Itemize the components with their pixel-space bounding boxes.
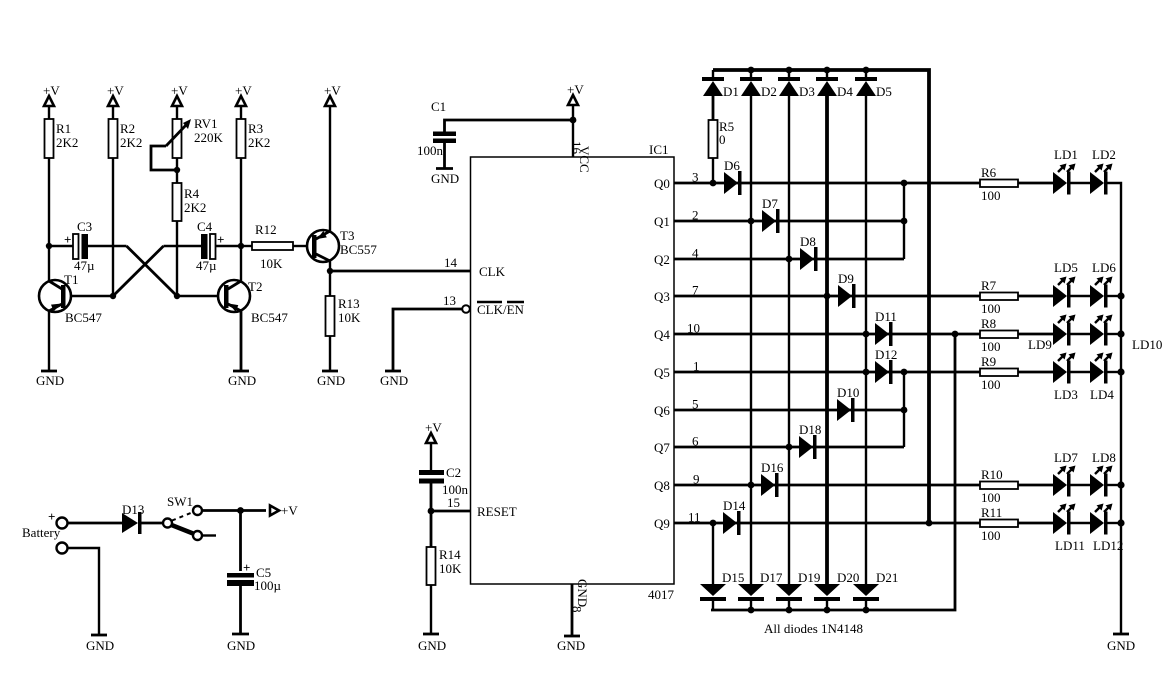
svg-text:100: 100 [981, 339, 1001, 354]
node rail row 523 [1117, 519, 1124, 526]
diode D13 [122, 502, 144, 534]
svg-text:C3: C3 [77, 219, 92, 234]
svg-text:4017: 4017 [648, 587, 675, 602]
svg-text:LD4: LD4 [1090, 387, 1114, 402]
wire T3 collector down [329, 261, 331, 296]
+V symbol (battery out) [270, 503, 298, 518]
wire Q6 row [674, 409, 904, 412]
svg-text:R10: R10 [981, 467, 1003, 482]
diode D7 [762, 196, 780, 233]
node Q4 / v955 [952, 331, 959, 338]
wire R14 to GND [430, 585, 432, 634]
node rail row 372 [1117, 368, 1124, 375]
LED LD7 [1053, 450, 1078, 497]
svg-text:D19: D19 [798, 570, 820, 585]
svg-text:LD5: LD5 [1054, 260, 1078, 275]
svg-text:LD3: LD3 [1054, 387, 1078, 402]
diode D14 [723, 498, 746, 535]
svg-text:R3: R3 [248, 121, 263, 136]
svg-text:BC547: BC547 [251, 310, 288, 325]
switch SW1 [163, 494, 202, 540]
wire Q3 row [674, 295, 1053, 298]
+V symbol (VCC) [567, 82, 584, 120]
svg-text:+: + [48, 509, 55, 524]
LED LD1 [1053, 147, 1078, 195]
diode D18 [799, 422, 821, 459]
wire switch throw stub [202, 534, 216, 536]
wire battery- to GND [68, 548, 99, 635]
node D2 top [748, 67, 755, 74]
svg-text:220K: 220K [194, 130, 224, 145]
right return rail to GND [1108, 183, 1122, 634]
pin 13 inversion circle [462, 305, 470, 313]
wire row 485 to rail [1108, 484, 1122, 486]
resistor R10 [980, 467, 1018, 505]
resistor R9 [980, 354, 1018, 392]
node D5 top [863, 67, 870, 74]
ground (T1) [36, 371, 64, 388]
svg-text:10K: 10K [260, 256, 283, 271]
ground (battery) [86, 635, 114, 653]
svg-text:GND: GND [228, 373, 256, 388]
node Q9 / D15 column [710, 520, 717, 527]
ground (pin 13) [380, 371, 408, 388]
svg-text:LD2: LD2 [1092, 147, 1116, 162]
svg-text:Q2: Q2 [654, 252, 670, 267]
svg-text:100: 100 [981, 528, 1001, 543]
ground (R13) [317, 371, 345, 388]
wire Q0 row [674, 182, 1053, 185]
svg-text:VCC: VCC [577, 146, 592, 173]
node rail / D21 [863, 607, 870, 614]
svg-text:All diodes 1N4148: All diodes 1N4148 [764, 621, 863, 636]
wire C1 top to VCC rail [445, 120, 574, 132]
wire R5 to Q0 row [712, 158, 714, 183]
transistor T2 BC547 [218, 279, 288, 325]
+V symbol (RV1 rail) [171, 83, 188, 119]
node T1 base [110, 293, 116, 299]
svg-text:Q9: Q9 [654, 516, 670, 531]
wire D15 column [712, 523, 714, 584]
wire C1 bottom to GND [443, 143, 446, 168]
wire Q4 row [674, 333, 1053, 336]
svg-text:Q1: Q1 [654, 214, 670, 229]
svg-text:+V: +V [107, 83, 124, 98]
svg-text:+V: +V [567, 82, 584, 97]
svg-text:2K2: 2K2 [184, 200, 206, 215]
wire R2 down to T1 base row (crosses C3 row) [112, 158, 114, 296]
svg-text:GND: GND [380, 373, 408, 388]
svg-text:D2: D2 [761, 84, 777, 99]
svg-text:D18: D18 [799, 422, 821, 437]
diode D16 [761, 460, 784, 497]
svg-text:R12: R12 [255, 222, 277, 237]
svg-text:Q6: Q6 [654, 403, 670, 418]
diode D10 [837, 385, 859, 422]
svg-text:Q7: Q7 [654, 440, 670, 455]
node RV1 wiper / R4 top [174, 167, 180, 173]
svg-text:BC547: BC547 [65, 310, 102, 325]
svg-text:2K2: 2K2 [56, 135, 78, 150]
wire row 296 to rail [1108, 295, 1122, 297]
svg-text:+V: +V [324, 83, 341, 98]
diode D8 [800, 234, 818, 271]
svg-text:GND: GND [227, 638, 255, 653]
node R5 / Q0 row [710, 180, 717, 187]
diode D15 [700, 570, 744, 610]
svg-text:R9: R9 [981, 354, 996, 369]
svg-text:D6: D6 [724, 158, 740, 173]
node Q8 / D2 column [748, 482, 755, 489]
node Q5 / v904 [901, 369, 908, 376]
node T1 collector / C3 left [46, 243, 52, 249]
wire D1 to R5 [712, 96, 715, 120]
svg-text:SW1: SW1 [167, 494, 193, 509]
svg-text:+V: +V [43, 83, 60, 98]
ground (T2) [228, 371, 256, 388]
svg-text:+V: +V [281, 503, 298, 518]
ground (C1) [431, 169, 459, 187]
svg-text:R4: R4 [184, 186, 200, 201]
svg-text:100: 100 [981, 490, 1001, 505]
resistor R14 [427, 547, 463, 585]
svg-text:LD7: LD7 [1054, 450, 1078, 465]
LED LD5 [1053, 260, 1078, 308]
diode D12 [875, 347, 897, 384]
svg-text:GND: GND [418, 638, 446, 653]
LED LD2 [1090, 147, 1116, 195]
svg-text:Battery: Battery [22, 525, 61, 540]
capacitor C5 [227, 560, 282, 593]
svg-text:GND: GND [1107, 638, 1135, 653]
svg-text:LD8: LD8 [1092, 450, 1116, 465]
svg-text:D9: D9 [838, 271, 854, 286]
svg-text:LD12: LD12 [1093, 538, 1123, 553]
wire LD3 to LD4 row 372 [1071, 371, 1091, 373]
capacitor C1 [417, 99, 456, 158]
svg-text:T3: T3 [340, 228, 354, 243]
capacitor C3 [64, 219, 95, 273]
wire v904 lower segment [903, 372, 905, 447]
wire VCC to IC pin 16 [572, 120, 574, 157]
resistor R2 [109, 119, 143, 158]
svg-text:D4: D4 [837, 84, 853, 99]
capacitor C2 [419, 465, 469, 497]
svg-text:GND: GND [317, 373, 345, 388]
svg-text:+V: +V [235, 83, 252, 98]
+V symbol (R3 rail) [235, 83, 252, 119]
svg-text:GND: GND [575, 579, 590, 607]
svg-text:D11: D11 [875, 309, 897, 324]
wire RV1 body to node [176, 158, 178, 183]
svg-text:C4: C4 [197, 219, 213, 234]
battery terminal + [22, 509, 68, 540]
svg-text:10K: 10K [439, 561, 462, 576]
svg-text:LD1: LD1 [1054, 147, 1078, 162]
svg-text:GND: GND [557, 638, 585, 653]
wire Q7 row [674, 446, 904, 449]
diode D6 [724, 158, 742, 195]
+V symbol (T3 rail) [324, 83, 341, 231]
node rail / D19 [786, 607, 793, 614]
node VCC [570, 117, 577, 124]
svg-text:LD9: LD9 [1028, 337, 1052, 352]
node D4 top [824, 67, 831, 74]
node Q1 / D2 column [748, 218, 755, 225]
wire LD5 to LD6 row 296 [1071, 295, 1091, 297]
svg-text:CLK/EN: CLK/EN [477, 302, 525, 317]
wire C2 to RESET node [430, 484, 433, 548]
wire row 523 to rail [1108, 522, 1122, 524]
svg-text:D3: D3 [799, 84, 815, 99]
svg-text:0: 0 [719, 132, 726, 147]
wire T2 base [177, 295, 218, 297]
svg-text:D21: D21 [876, 570, 898, 585]
node T2 base [174, 293, 180, 299]
diode D17 [738, 570, 783, 610]
svg-text:C1: C1 [431, 99, 446, 114]
resistor R12 [252, 222, 293, 271]
transistor T3 BC557 [307, 228, 377, 262]
diode D21 [853, 570, 898, 610]
node D3 top [786, 67, 793, 74]
wire Q5 row [674, 371, 1053, 374]
svg-text:+: + [217, 232, 224, 247]
LED LD3 [1053, 353, 1078, 403]
svg-text:47µ: 47µ [196, 258, 217, 273]
+V symbol (R1 rail) [43, 83, 60, 119]
node Q0 row / v904 [901, 180, 908, 187]
svg-text:R6: R6 [981, 165, 997, 180]
wire D13 to switch pole [141, 522, 162, 525]
wire C3 row left [49, 245, 73, 247]
wire IC pin 8 GND [571, 584, 574, 636]
LED LD12 [1090, 504, 1123, 554]
resistor R8 [980, 316, 1018, 354]
IC U1 4017 body [471, 157, 675, 584]
node Q5 / D5 column [863, 369, 870, 376]
wire R12 right lead to T3 base [293, 245, 308, 247]
potentiometer RV1 [166, 116, 224, 158]
svg-text:D17: D17 [760, 570, 783, 585]
svg-text:T2: T2 [248, 279, 262, 294]
wire node to C5 [239, 511, 242, 572]
svg-text:D8: D8 [800, 234, 816, 249]
diode D5 [855, 70, 892, 99]
wire T1 emitter to GND [48, 311, 50, 371]
wire T2 emitter to GND [240, 311, 243, 371]
svg-text:RESET: RESET [477, 504, 517, 519]
wire C3 right to crossover [88, 245, 127, 247]
resistor R1 [45, 119, 79, 158]
pin CLK/EN label [477, 302, 525, 317]
resistor R13 [326, 296, 362, 336]
crossover diagonal C4 to T1 base [113, 246, 164, 296]
transistor T1 BC547 [39, 272, 102, 325]
wire C5 to GND [239, 586, 242, 634]
diode D2 [740, 70, 777, 99]
svg-text:Q5: Q5 [654, 365, 670, 380]
svg-text:GND: GND [431, 171, 459, 186]
node rail row 296 [1117, 292, 1124, 299]
wire row 372 to rail [1108, 371, 1122, 373]
node Q2 / D3 column [786, 256, 793, 263]
wire D3 column [788, 96, 790, 584]
wire battery+ to D13 [68, 522, 122, 525]
svg-text:Q0: Q0 [654, 176, 670, 191]
resistor R7 [980, 278, 1018, 316]
node Q3 / D4 column [824, 293, 831, 300]
svg-text:14: 14 [444, 255, 458, 270]
diode D9 [838, 271, 856, 308]
svg-text:D5: D5 [876, 84, 892, 99]
svg-text:2K2: 2K2 [120, 135, 142, 150]
+V symbol (C2) [425, 420, 442, 470]
wire D2 column [750, 96, 752, 584]
svg-text:C2: C2 [446, 465, 461, 480]
wire Q2 row [674, 258, 904, 261]
svg-text:+V: +V [425, 420, 442, 435]
wire row 334 to rail [1108, 333, 1122, 335]
ground (IC pin 8) [557, 636, 585, 653]
node Q6 / v904 [901, 407, 908, 414]
svg-text:R8: R8 [981, 316, 996, 331]
wire LD9 to LD10 row 334 [1071, 333, 1091, 335]
wire LD7 to LD8 row 485 [1071, 484, 1091, 486]
svg-text:Q3: Q3 [654, 289, 670, 304]
node rail / D20 [824, 607, 831, 614]
svg-text:100µ: 100µ [254, 578, 282, 593]
wire LD11 to LD12 row 523 [1071, 522, 1091, 524]
wire Q9 row [674, 522, 1053, 525]
wire CLK to IC pin 14 [330, 270, 470, 273]
resistor R11 [980, 505, 1018, 543]
bottom cathode rail [711, 334, 955, 610]
svg-text:D1: D1 [723, 84, 739, 99]
svg-text:10K: 10K [338, 310, 361, 325]
LED LD10 [1090, 315, 1162, 353]
svg-text:CLK: CLK [479, 264, 506, 279]
node Q7 / D3 column [786, 444, 793, 451]
node RESET [428, 508, 435, 515]
svg-text:LD11: LD11 [1055, 538, 1085, 553]
resistor R6 [980, 165, 1018, 203]
svg-text:+: + [64, 232, 71, 247]
wire R4 down to T2 base node (crosses C4 row) [176, 221, 178, 296]
ground (LED return) [1107, 634, 1135, 653]
svg-text:2K2: 2K2 [248, 135, 270, 150]
svg-text:100: 100 [981, 301, 1001, 316]
wire Q1 row [674, 220, 904, 223]
RV1 wiper wire [151, 146, 177, 170]
node rail / D17 [748, 607, 755, 614]
svg-text:R13: R13 [338, 296, 360, 311]
svg-text:100: 100 [981, 188, 1001, 203]
svg-text:D12: D12 [875, 347, 897, 362]
wire D4 column (thick) [825, 96, 829, 584]
svg-text:LD10: LD10 [1132, 337, 1162, 352]
wire v904 upper segment [903, 183, 905, 259]
battery terminal - [57, 543, 68, 554]
node rail row 334 [1117, 330, 1124, 337]
diode D3 [778, 70, 815, 99]
crossover diagonal C3 to T2 base [127, 246, 178, 296]
pin 13 wire CLK/EN to GND [393, 309, 462, 371]
node Q4 / D5 column [863, 331, 870, 338]
svg-text:13: 13 [443, 293, 456, 308]
wire R1 to collector node [48, 158, 50, 282]
diode D19 [776, 570, 820, 610]
node Q9 / right thick rail [926, 520, 933, 527]
svg-text:GND: GND [86, 638, 114, 653]
svg-text:LD6: LD6 [1092, 260, 1116, 275]
wire LD1 to LD2 row 183 [1071, 182, 1091, 184]
LED LD11 [1053, 504, 1085, 554]
svg-text:Q8: Q8 [654, 478, 670, 493]
capacitor C4 [196, 219, 224, 273]
wire D5 column [865, 96, 867, 584]
ground (R14) [418, 634, 446, 653]
LED LD9 [1028, 315, 1076, 353]
svg-text:R11: R11 [981, 505, 1002, 520]
node Q1 / v904 [901, 218, 908, 225]
svg-text:15: 15 [447, 495, 460, 510]
svg-text:RV1: RV1 [194, 116, 218, 131]
svg-text:D16: D16 [761, 460, 784, 475]
diode D20 [814, 570, 859, 610]
wire T1 base [71, 295, 113, 297]
resistor R4 [173, 183, 207, 221]
svg-text:T1: T1 [64, 272, 78, 287]
svg-text:100: 100 [981, 377, 1001, 392]
svg-text:R7: R7 [981, 278, 997, 293]
svg-text:D10: D10 [837, 385, 859, 400]
node T3 collector / CLK [327, 268, 333, 274]
svg-text:D7: D7 [762, 196, 778, 211]
svg-text:R2: R2 [120, 121, 135, 136]
svg-text:R14: R14 [439, 547, 461, 562]
LED LD8 [1090, 450, 1116, 497]
svg-text:GND: GND [36, 373, 64, 388]
svg-text:D15: D15 [722, 570, 744, 585]
svg-text:+: + [243, 560, 250, 575]
top +V rail [713, 70, 929, 523]
resistor R5 [709, 119, 735, 158]
svg-text:47µ: 47µ [74, 258, 95, 273]
+V symbol (R2 rail) [107, 83, 124, 119]
svg-text:D20: D20 [837, 570, 859, 585]
diode D4 [816, 70, 853, 99]
LED LD6 [1090, 260, 1116, 308]
diode D11 [875, 309, 897, 346]
resistor R3 [237, 119, 271, 158]
node C5 top [237, 507, 244, 514]
wire C4 right to R3 node [216, 245, 242, 247]
node rail row 485 [1117, 481, 1124, 488]
svg-text:D14: D14 [723, 498, 746, 513]
svg-text:+V: +V [171, 83, 188, 98]
ground (C5) [227, 634, 255, 653]
svg-text:8: 8 [570, 606, 585, 613]
wire Q8 row [674, 484, 1053, 487]
wire R12 left lead [241, 245, 252, 247]
svg-text:100n: 100n [417, 143, 444, 158]
svg-text:R1: R1 [56, 121, 71, 136]
LED LD4 [1090, 353, 1114, 403]
svg-text:BC557: BC557 [340, 242, 377, 257]
svg-text:Q4: Q4 [654, 327, 670, 342]
wire R3 to T2 collector [240, 158, 242, 282]
